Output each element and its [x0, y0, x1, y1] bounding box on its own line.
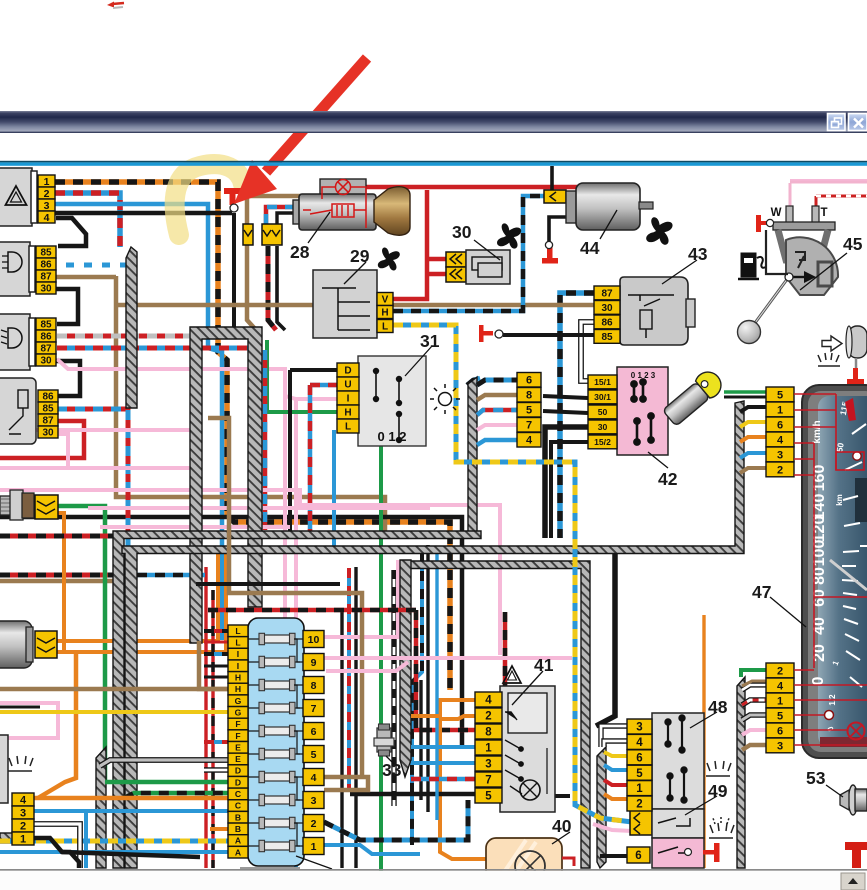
svg-text:2: 2: [311, 818, 317, 830]
svg-text:5: 5: [636, 768, 643, 780]
svg-text:E: E: [235, 742, 241, 752]
svg-text:42: 42: [658, 469, 678, 489]
svg-text:G: G: [235, 707, 242, 717]
svg-text:1: 1: [311, 841, 317, 853]
svg-text:53: 53: [806, 768, 826, 788]
svg-text:F: F: [235, 731, 240, 741]
svg-text:B: B: [235, 824, 241, 834]
svg-text:3: 3: [44, 200, 50, 212]
svg-text:6: 6: [777, 419, 783, 431]
svg-text:33: 33: [382, 760, 402, 780]
svg-text:10: 10: [308, 634, 320, 646]
svg-text:4: 4: [485, 695, 492, 707]
svg-text:85: 85: [40, 320, 52, 331]
svg-text:km: km: [835, 494, 844, 506]
svg-text:8: 8: [526, 390, 532, 402]
svg-text:C: C: [235, 801, 241, 811]
svg-text:15/1: 15/1: [594, 377, 611, 387]
svg-text:4: 4: [44, 212, 50, 224]
svg-text:V: V: [382, 295, 389, 306]
svg-text:87: 87: [42, 416, 54, 427]
svg-text:40: 40: [552, 816, 572, 836]
svg-text:45: 45: [843, 234, 863, 254]
svg-text:1: 1: [777, 695, 783, 707]
svg-text:2: 2: [777, 464, 783, 476]
svg-text:5: 5: [777, 710, 783, 722]
svg-text:47: 47: [752, 582, 771, 602]
svg-text:F: F: [235, 719, 240, 729]
svg-text:31: 31: [420, 331, 440, 351]
svg-text:H: H: [344, 408, 351, 419]
svg-text:85: 85: [601, 332, 613, 343]
svg-text:30: 30: [40, 284, 52, 295]
svg-text:H: H: [235, 684, 241, 694]
svg-text:4: 4: [526, 435, 533, 447]
svg-text:50: 50: [598, 407, 608, 417]
svg-text:41: 41: [534, 655, 554, 675]
svg-text:48: 48: [708, 697, 728, 717]
svg-text:86: 86: [40, 260, 52, 271]
svg-text:29: 29: [350, 246, 370, 266]
svg-text:6: 6: [311, 726, 317, 738]
svg-text:4: 4: [636, 737, 643, 749]
svg-text:5: 5: [526, 405, 532, 417]
svg-text:7: 7: [485, 775, 491, 787]
svg-text:D: D: [235, 766, 241, 776]
svg-text:30: 30: [601, 303, 613, 314]
svg-text:H: H: [235, 673, 241, 683]
svg-text:30: 30: [452, 222, 472, 242]
svg-text:2: 2: [44, 188, 50, 200]
svg-text:3: 3: [311, 795, 317, 807]
svg-text:I: I: [237, 661, 239, 671]
svg-text:87: 87: [601, 289, 613, 300]
svg-text:E: E: [235, 754, 241, 764]
svg-text:3: 3: [777, 449, 783, 461]
svg-text:3: 3: [20, 807, 26, 819]
svg-text:A: A: [235, 836, 241, 846]
svg-text:30: 30: [598, 422, 608, 432]
svg-text:30: 30: [42, 428, 54, 439]
svg-text:km/h: km/h: [812, 420, 823, 443]
svg-text:87: 87: [40, 272, 52, 283]
svg-text:4: 4: [20, 794, 27, 806]
svg-text:3: 3: [485, 759, 491, 771]
svg-text:B: B: [235, 812, 241, 822]
svg-text:2: 2: [485, 711, 491, 723]
svg-text:2: 2: [777, 665, 783, 677]
svg-text:L: L: [235, 626, 240, 636]
svg-text:L: L: [382, 322, 388, 333]
svg-text:2: 2: [20, 820, 26, 832]
svg-text:4: 4: [777, 434, 784, 446]
svg-text:3: 3: [636, 722, 642, 734]
svg-text:6: 6: [777, 725, 783, 737]
svg-text:6: 6: [526, 375, 532, 387]
svg-text:2: 2: [636, 799, 642, 811]
svg-text:28: 28: [290, 242, 310, 262]
svg-text:I: I: [237, 649, 239, 659]
svg-text:86: 86: [40, 332, 52, 343]
svg-text:9: 9: [311, 657, 317, 669]
svg-text:43: 43: [688, 244, 708, 264]
svg-text:7: 7: [526, 420, 532, 432]
svg-text:3: 3: [777, 740, 783, 752]
svg-text:4: 4: [311, 772, 317, 784]
svg-text:1: 1: [20, 833, 26, 845]
svg-text:85: 85: [42, 404, 54, 415]
svg-text:I: I: [347, 394, 350, 405]
svg-text:6: 6: [635, 850, 641, 862]
svg-text:85: 85: [40, 248, 52, 259]
svg-text:87: 87: [40, 344, 52, 355]
svg-text:L: L: [235, 638, 240, 648]
svg-text:1: 1: [636, 783, 643, 795]
svg-text:8: 8: [485, 727, 492, 739]
svg-text:44: 44: [580, 238, 600, 258]
svg-text:U: U: [344, 380, 351, 391]
svg-text:0 1 2: 0 1 2: [378, 429, 407, 444]
svg-text:W: W: [771, 207, 782, 219]
svg-text:5: 5: [777, 389, 783, 401]
svg-text:49: 49: [708, 781, 728, 801]
svg-text:86: 86: [601, 318, 613, 329]
svg-text:5: 5: [311, 749, 317, 761]
svg-text:1: 1: [485, 743, 492, 755]
svg-text:8: 8: [311, 680, 317, 692]
svg-text:D: D: [344, 366, 351, 377]
svg-text:7: 7: [311, 703, 317, 715]
svg-text:30/1: 30/1: [594, 392, 611, 402]
svg-text:C: C: [235, 789, 241, 799]
svg-text:30: 30: [40, 356, 52, 367]
svg-text:0: 0: [810, 676, 827, 685]
svg-text:15/2: 15/2: [594, 437, 611, 447]
svg-text:6: 6: [636, 752, 642, 764]
svg-text:L: L: [345, 422, 351, 433]
svg-text:A: A: [235, 847, 241, 857]
svg-text:H: H: [381, 308, 388, 319]
svg-text:G: G: [235, 696, 242, 706]
svg-text:D: D: [235, 777, 241, 787]
svg-text:T: T: [820, 207, 827, 219]
svg-text:86: 86: [42, 392, 54, 403]
svg-text:4: 4: [777, 680, 784, 692]
svg-text:1: 1: [777, 404, 783, 416]
svg-text:1: 1: [44, 176, 50, 188]
svg-text:5: 5: [485, 791, 492, 803]
